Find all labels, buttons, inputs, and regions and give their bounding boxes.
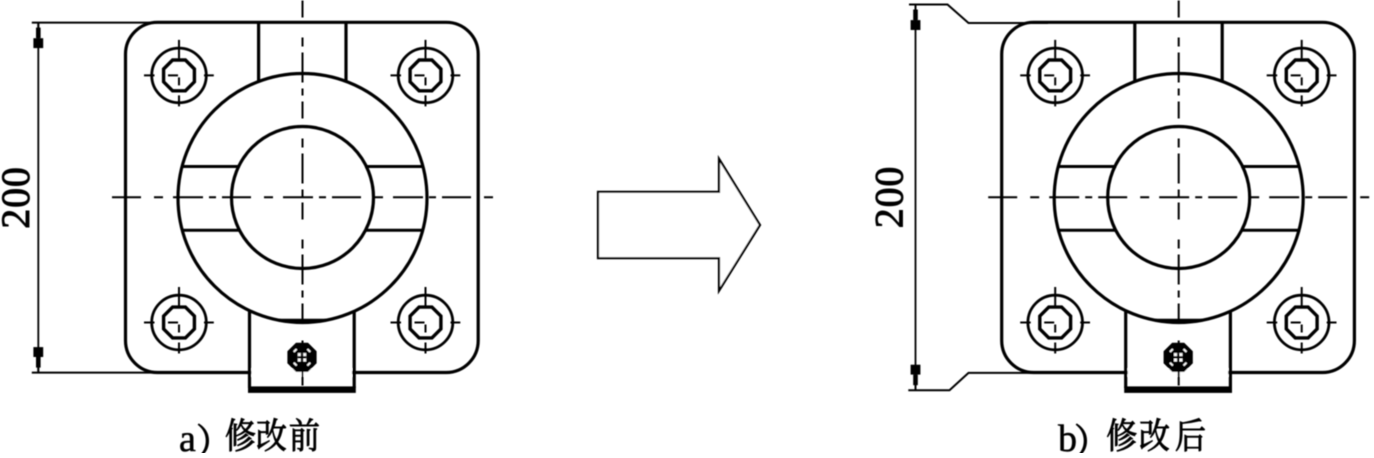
dimension line xyxy=(37,23,39,372)
dimension b xyxy=(867,5,1048,391)
extension line top xyxy=(32,22,170,24)
caption a xyxy=(179,418,319,458)
flange part b xyxy=(988,1,1374,393)
caption b xyxy=(1058,418,1205,458)
extension line bottom xyxy=(32,372,170,374)
dimension a xyxy=(0,23,170,373)
svg-text:a: a xyxy=(179,418,196,453)
block arrow xyxy=(598,159,760,291)
svg-text:200: 200 xyxy=(867,166,912,228)
svg-text:b: b xyxy=(1058,418,1077,453)
extension line bottom with jog xyxy=(908,373,1048,390)
dimension line xyxy=(915,5,917,390)
extension line top with jog xyxy=(909,5,1048,24)
svg-text:200: 200 xyxy=(0,166,38,228)
flange part a xyxy=(112,1,502,393)
